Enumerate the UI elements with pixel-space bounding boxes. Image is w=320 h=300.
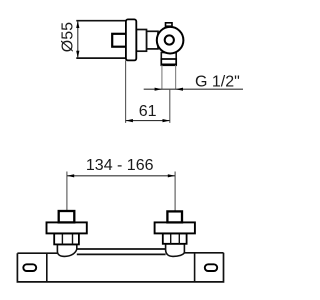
svg-text:G 1/2": G 1/2" [195, 73, 240, 90]
top view: neck segment 1 [136, 30, 146, 52]
top view: outlet nut band [161, 59, 177, 65]
top view: end flange (Ø55) [126, 19, 136, 60]
front view: right union eccentric curve [166, 244, 185, 257]
top view: square nub on body [112, 34, 126, 47]
dimension G 1/2": label [195, 73, 240, 90]
front view: left union flange [47, 222, 87, 233]
front view: left union eccentric curve [57, 244, 76, 256]
top view: outlet pipe right edge [175, 65, 177, 89]
front view: bar raised top line [77, 248, 166, 250]
dimension 134-166: dimension line [67, 174, 175, 177]
front view: bar left divider [46, 253, 48, 282]
front view: left union top nut [59, 211, 75, 222]
front view: bar right divider [194, 253, 196, 282]
top view: mixer body bar [76, 21, 126, 58]
dimension 134-166: left extension line [66, 172, 68, 211]
top view: outlet fitting under knob [161, 53, 176, 66]
front view: right union top nut [167, 211, 182, 222]
dimension 61: dimension line [126, 119, 170, 122]
dimension 61: left extension line (from flange axis) [125, 60, 127, 123]
front view: right union hex nut [163, 233, 187, 243]
dimension 61: label [139, 103, 157, 120]
front view: right union flange [155, 222, 195, 233]
front view: bar outline [17, 253, 223, 282]
top view: knob inner circle [165, 35, 174, 44]
top view: outlet pipe left edge [161, 65, 163, 89]
top view: knob top tab [166, 23, 173, 26]
dimension 134-166: label [86, 157, 154, 174]
top view: knob outer circle [157, 27, 184, 54]
top view: neck segment 2 [147, 31, 159, 49]
svg-text:Ø55: Ø55 [60, 22, 77, 52]
front view: right mounting slot [205, 264, 217, 271]
svg-text:134 - 166: 134 - 166 [86, 157, 154, 174]
dimension Ø55: label [60, 22, 77, 52]
dimension 134-166: right extension line [174, 172, 176, 211]
front view: left mounting slot [23, 264, 36, 271]
svg-text:61: 61 [139, 103, 157, 120]
dimension Ø55: dimension line [76, 21, 79, 58]
dimension G 1/2": leader line with arrows [144, 88, 243, 91]
front view: left union hex nut [54, 233, 79, 244]
dimension 61: right extension line (pipe centerline) [169, 89, 171, 123]
